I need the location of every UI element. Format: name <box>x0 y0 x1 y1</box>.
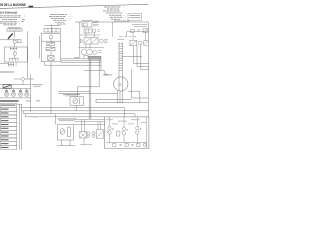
svg-text:RCUIT HYDRAULIQUE: RCUIT HYDRAULIQUE <box>0 12 17 15</box>
svg-text:ON DE LA MACHINE: ON DE LA MACHINE <box>0 3 26 7</box>
